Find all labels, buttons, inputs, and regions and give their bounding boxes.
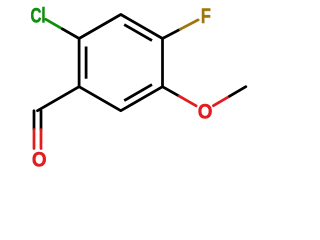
svg-text:Cl: Cl [30, 3, 45, 27]
bond C2-Cl green half [46, 19, 63, 29]
bond O-CH3 red half [213, 96, 229, 106]
C7=O double bond line red half (dx=-3.5) [33, 130, 36, 149]
atom label O methoxy [198, 101, 213, 124]
bond C2-Cl black half [62, 29, 79, 39]
atom label O aldehyde [32, 149, 47, 172]
bond C5-O black half [163, 87, 180, 97]
benzene ring outer hexagon [79, 15, 162, 111]
atom label F [201, 4, 211, 27]
inner aromatic line V6-V1 [85, 47, 88, 79]
C7=O double bond line black half (dx=3.5) [40, 111, 43, 130]
C7=O double bond line black half (dx=-3.5) [33, 111, 36, 130]
svg-text:O: O [32, 149, 47, 172]
C7=O double bond line red half (dx=3.5) [40, 130, 43, 149]
bond C4-F gold half [180, 20, 198, 29]
svg-text:F: F [201, 4, 211, 27]
bond C5-O red half [179, 96, 196, 106]
svg-text:O: O [198, 101, 213, 124]
bond O-CH3 black half [230, 87, 246, 97]
bond C1-C7 [38, 87, 80, 111]
inner aromatic line V2-V3 [124, 25, 152, 41]
inner aromatic line V4-V5 [124, 85, 152, 101]
atom label Cl [30, 3, 45, 27]
bond C4-F black half [163, 29, 181, 38]
